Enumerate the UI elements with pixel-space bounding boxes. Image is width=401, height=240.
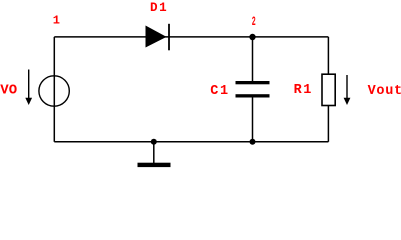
svg-text:D1: D1: [150, 1, 168, 15]
svg-text:Vout: Vout: [368, 84, 401, 99]
svg-text:VO: VO: [0, 82, 17, 98]
svg-text:2: 2: [252, 14, 256, 29]
svg-text:1: 1: [53, 14, 60, 28]
svg-text:C1: C1: [210, 84, 229, 99]
svg-text:R1: R1: [294, 83, 313, 98]
